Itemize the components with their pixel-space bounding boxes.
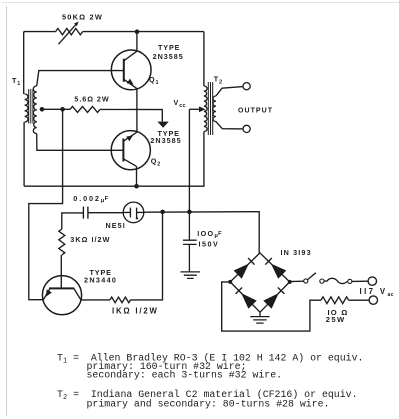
wire AC bottom terminal to 10 ohm [349,299,370,301]
wire 10 ohm return to bridge left vertex [222,282,321,331]
wire node A down to corner [29,109,63,299]
wire 1K to DC bus [131,212,163,300]
ground symbol (filter cap) [181,272,201,279]
transformer T1 core [29,89,33,124]
terminal 117VAC top [368,277,376,285]
transformer T1 primary winding [25,94,28,122]
capacitor C2 100uF 150V [183,212,197,272]
bridge arm wires [230,253,290,312]
transistor Q1 base bar [123,59,125,82]
wire T2 primary top lead [203,32,205,86]
scan edge artifact (left) [6,6,8,416]
wire Vcc to T2 center tap [189,108,199,110]
wire Q1 collector to top rail [136,32,138,52]
resistor R1 50K ohm 2W variable (zigzag) [56,28,83,34]
svg-text:secondary: each 3-turns #32 wi: secondary: each 3-turns #32 wire. [87,370,283,381]
wire DC bus (NE51 to bridge) [144,212,259,253]
transistor Q3 collector line [74,288,81,300]
svg-text:primary and secondary: 80-turn: primary and secondary: 80-turns #28 wire… [87,399,330,410]
switch S1 throw [320,279,324,283]
transistor Q2 collector line [123,159,136,167]
svg-text:5.6Ω 2W: 5.6Ω 2W [74,95,109,104]
transistor Q1 emitter line [124,79,137,88]
svg-text:3KΩ I/2W: 3KΩ I/2W [70,235,110,244]
neon lamp NE51 envelope [123,202,144,223]
transistor Q1 collector line [124,51,137,61]
wire top rail left segment (50K left lead) [24,31,56,33]
wire top rail right segment [83,31,204,33]
terminal 117VAC bottom [369,296,377,304]
wire collector bus (T1 primary bottom to T2 primary bottom) [24,132,204,187]
junction node Vcc drop on DC bus [187,210,192,215]
wire 0.002uF right lead to NE51 [88,212,123,214]
svg-text:2N3585: 2N3585 [150,136,181,145]
junction node bridge left vertex [228,280,232,284]
transistor Q3 emitter arrow [46,289,52,296]
terminal output bottom circle [243,125,250,132]
svg-text:2N3440: 2N3440 [84,276,117,285]
transistor Q2 base bar [122,139,124,162]
svg-text:I50V: I50V [199,240,220,249]
svg-text:IN 3I93: IN 3I93 [281,248,312,257]
resistor R3 3K 1/2W [59,229,65,255]
diode D4 1N3193 (lower right) [263,293,278,309]
resistor R5 10 ohm 25W [321,297,349,304]
svg-text:50KΩ 2W: 50KΩ 2W [62,12,103,21]
transistor Q2 2N3585 circle [111,131,150,170]
wire bridge right vertex to switch [290,280,304,282]
junction node top rail / Q1 collector [135,29,140,34]
wire Q3 collector to 1K [81,299,110,301]
svg-text:T2: T2 [214,75,223,86]
transformer T2 core [208,82,212,135]
wire T1 center tap [40,108,70,110]
capacitor C1 0.002uF plates [83,207,88,219]
transformer T1 secondary winding [33,86,36,134]
wire Q1 emitter to Q2 emitter [136,89,138,133]
transformer T2 primary winding [204,86,207,132]
terminal output top circle [243,83,250,90]
scan edge artifact (top) [2,2,399,4]
wire 3K to Q3 base [60,255,62,288]
ground symbol (bridge) [250,317,269,324]
resistor R2 5.6 ohm 2W [70,106,100,112]
diode D2 1N3193 (upper right) [271,264,286,279]
transistor Q1 emitter arrow [127,79,134,85]
transistor Q2 emitter line [123,132,136,141]
diode D3 1N3193 (lower left) [241,293,257,309]
transistor Q3 emitter line [43,288,50,299]
wire T1 secondary top lead to Q1 base [37,71,124,86]
svg-text:NE5I: NE5I [106,221,126,230]
svg-text:2N3585: 2N3585 [153,52,184,61]
wire T2 secondary bottom lead [216,122,243,129]
svg-text:IOOμF: IOOμF [197,229,222,239]
svg-text:Q1: Q1 [149,75,159,86]
fuse F1 wavy element [324,278,347,283]
wire Vcc vertical drop to DC bus [188,109,190,212]
wire Q2 collector to bus [136,166,138,186]
junction node bridge right vertex [288,280,292,284]
fuse F1 right terminal [348,279,352,283]
wire T1 secondary bottom lead to Q2 base [37,134,124,151]
svg-text:25W: 25W [326,315,346,324]
wire bridge bottom to ground [259,312,261,316]
svg-text:TYPE: TYPE [158,43,180,52]
transistor Q1 2N3585 circle [111,50,151,90]
svg-text:OUTPUT: OUTPUT [238,107,273,114]
neon lamp NE51 electrodes [123,208,144,218]
svg-text:0.002μF: 0.002μF [73,194,108,204]
wire 0.002uF left lead / 3K top lead [62,213,84,229]
wire T1 primary bottom lead [23,122,25,186]
wire fuse to AC terminal [352,280,368,282]
switch S1 lever [308,273,316,280]
resistor R4 1K 1/2W [110,297,131,303]
transistor Q3 base bar [49,287,74,289]
svg-text:Vcc: Vcc [174,98,186,109]
junction node A (5.6 ohm / feedback) [60,107,65,112]
neon lamp NE51 gas dot [136,217,138,219]
wire T2 secondary top lead [216,87,243,96]
wire T1 primary top lead (from top rail) [23,32,25,94]
arrow of variable resistor R1 [59,21,79,44]
arrow into T2 center tap [199,106,205,112]
switch S1 pole [304,279,308,283]
diode D1 1N3193 (upper left) [234,264,249,279]
transformer T2 secondary winding [213,96,216,122]
junction node Q2 collector on bus [134,184,139,189]
wire 5.6 ohm to Vcc arrow [100,109,162,121]
svg-text:IKΩ I/2W: IKΩ I/2W [112,307,159,316]
junction node center tap [40,107,45,112]
transistor Q3 2N3440 circle [42,276,81,315]
svg-text:T1: T1 [12,76,21,87]
power symbol Vcc (down arrow) [157,122,168,128]
junction node 1K feed on DC bus [160,210,165,215]
transistor Q2 emitter arrow [126,136,133,142]
svg-text:Q2: Q2 [151,157,161,168]
